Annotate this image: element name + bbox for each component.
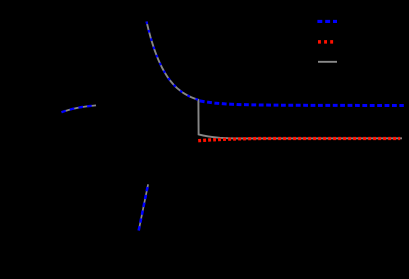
legend sample: blue dashed line (317, 20, 337, 23)
blue dashed curve: left branch segment (62, 105, 97, 112)
legend sample: gray solid line (318, 61, 337, 63)
legend sample: red dotted line (318, 40, 333, 44)
blue dashed curve: main branch slope section (147, 22, 199, 100)
gray solid curve: left branch segment (62, 105, 97, 112)
blue dashed curve: upper asymptote tail (200, 101, 404, 106)
red dotted curve: lower asymptote line (198, 139, 400, 141)
blue dashed curve: steep lower-left branch segment (139, 184, 148, 230)
gray solid curve: steep lower-left branch segment (139, 184, 148, 230)
gray solid curve: main branch with vertical jump and lower asymptote (147, 22, 403, 139)
